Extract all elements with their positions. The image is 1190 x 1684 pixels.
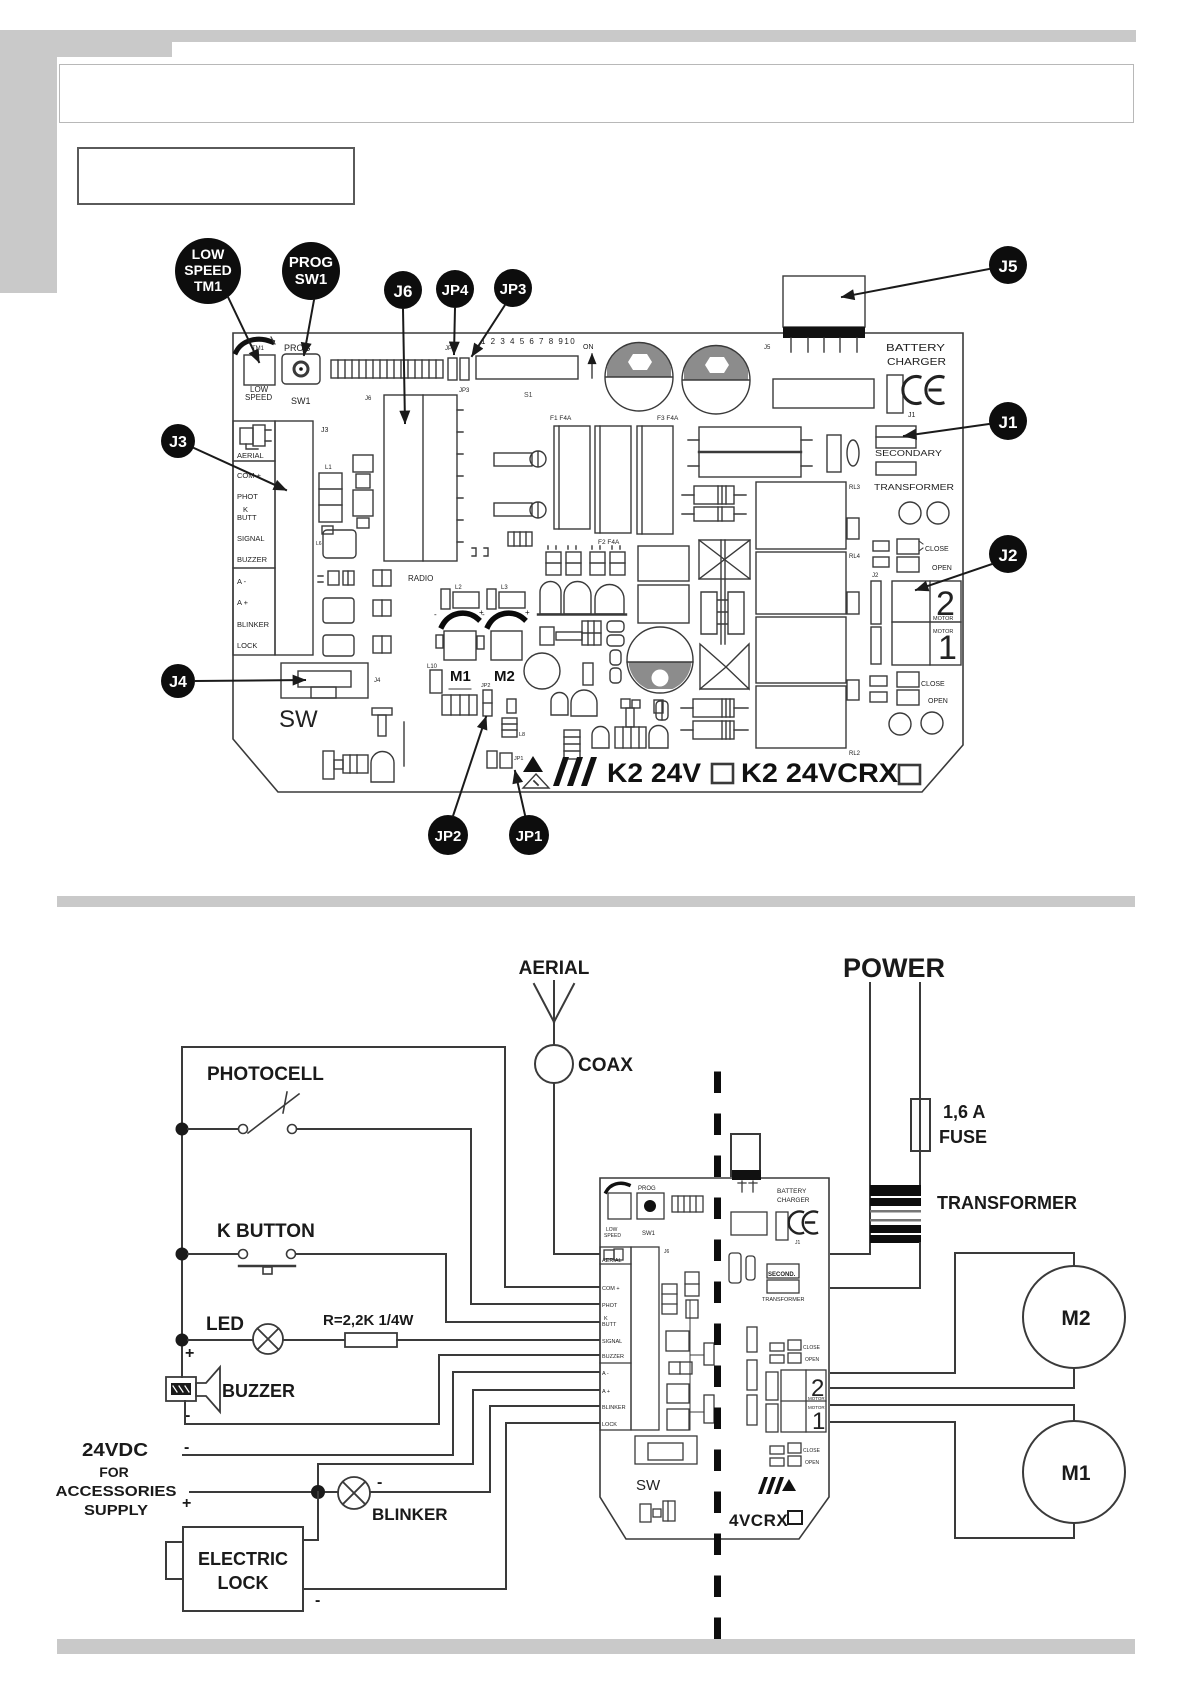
- svg-text:OPEN: OPEN: [928, 698, 948, 705]
- close open B: [870, 672, 948, 705]
- capacitor C2: [682, 345, 750, 414]
- wire transformer out: [831, 1243, 920, 1288]
- logo slashes: [553, 757, 597, 786]
- svg-text:ACCESSORIES: ACCESSORIES: [56, 1484, 177, 1500]
- svg-text:CLOSE: CLOSE: [803, 1345, 821, 1351]
- label minus buzzer: [185, 1407, 190, 1424]
- capacitor C4: [524, 653, 560, 689]
- inductor L1: [316, 465, 342, 547]
- svg-text:BLINKER: BLINKER: [372, 1505, 448, 1524]
- svg-text:J5: J5: [999, 257, 1018, 276]
- capacitor C1: [605, 342, 673, 411]
- svg-text:M1: M1: [1061, 1462, 1090, 1485]
- wire A plus: [190, 1390, 601, 1492]
- fuse F2: [595, 426, 631, 533]
- screw T1: [372, 708, 392, 736]
- mini components mid: [662, 1272, 699, 1430]
- inductor L10: [427, 664, 442, 693]
- mini J6 label: [664, 1249, 670, 1255]
- svg-text:ELECTRIC: ELECTRIC: [198, 1549, 288, 1569]
- pin header comb: [331, 360, 443, 378]
- svg-text:PROG: PROG: [638, 1186, 656, 1192]
- wire power L: [831, 983, 870, 1254]
- label COAX: [578, 1055, 633, 1076]
- svg-text:J3: J3: [321, 427, 329, 434]
- label plus buzzer: [185, 1345, 194, 1362]
- mini relay col: [690, 1300, 757, 1430]
- label 24VDC FOR ACCESSORIES SUPPLY: [56, 1440, 177, 1519]
- mini pin labels: [602, 1258, 626, 1428]
- mini trimmer: [604, 1183, 631, 1239]
- DIP switch: [476, 337, 594, 399]
- balloon J2: [916, 535, 1027, 590]
- pellets row: [538, 582, 626, 615]
- label 1,6 A FUSE: [939, 1102, 987, 1147]
- mini close open A: [770, 1340, 821, 1363]
- dashed line: [714, 1075, 721, 1662]
- balloon PROG SW1: [282, 242, 340, 355]
- relay RL2: [756, 680, 861, 757]
- svg-text:SPEED: SPEED: [184, 262, 231, 278]
- mini J3: [600, 1247, 659, 1430]
- pellet D2: [551, 690, 597, 716]
- screw assembly: [323, 751, 368, 779]
- svg-text:F3 F4A: F3 F4A: [657, 415, 679, 422]
- label LED: [206, 1314, 244, 1335]
- svg-text:+: +: [525, 608, 530, 617]
- board outline: [233, 333, 963, 792]
- svg-text:J1: J1: [999, 413, 1018, 432]
- close open A: [873, 539, 952, 572]
- svg-text:LOCK: LOCK: [602, 1422, 617, 1428]
- label minus 24vdc: [184, 1439, 189, 1456]
- label minus blinker: [377, 1474, 382, 1491]
- svg-text:TM1: TM1: [194, 278, 222, 294]
- FIG1: [161, 238, 1027, 855]
- svg-text:SIGNAL: SIGNAL: [602, 1339, 622, 1345]
- svg-text:SPEED: SPEED: [245, 393, 272, 402]
- radio module J6: [365, 395, 463, 561]
- checkbox 1: [712, 764, 733, 783]
- balloon J1: [904, 402, 1027, 440]
- small part: [507, 699, 516, 713]
- electric lock: [166, 1527, 303, 1611]
- svg-text:L6: L6: [316, 541, 322, 547]
- pellet D1: [371, 752, 394, 783]
- connector row E: [546, 546, 625, 575]
- svg-text:J1: J1: [795, 1240, 801, 1246]
- label SW1: [291, 396, 311, 406]
- svg-text:SW1: SW1: [295, 271, 328, 288]
- svg-text:K2 24V: K2 24V: [607, 758, 701, 788]
- svg-text:J3: J3: [169, 434, 187, 451]
- svg-text:J2: J2: [872, 573, 879, 579]
- label AERIAL: [519, 958, 590, 979]
- trace line: [403, 722, 405, 766]
- fuse F5: [887, 375, 903, 413]
- small cap: [583, 650, 621, 685]
- mosfet M2: [477, 631, 522, 660]
- fuse F1: [550, 415, 590, 529]
- svg-text:J6: J6: [664, 1249, 670, 1255]
- svg-text:-: -: [434, 610, 437, 619]
- connector SW J4: [281, 663, 381, 698]
- wire M1 bottom: [831, 1422, 1074, 1538]
- svg-text:LOCK: LOCK: [237, 641, 257, 650]
- svg-text:BUTT: BUTT: [237, 513, 257, 522]
- svg-text:CHARGER: CHARGER: [777, 1197, 810, 1204]
- svg-text:ON: ON: [583, 344, 594, 351]
- resistor R1: [283, 1333, 601, 1347]
- pellet D3: [592, 726, 668, 749]
- svg-text:CHARGER: CHARGER: [887, 357, 946, 368]
- svg-text:RADIO: RADIO: [408, 574, 433, 583]
- wire M2 top: [831, 1253, 1074, 1373]
- svg-text:BUTT: BUTT: [602, 1322, 617, 1328]
- svg-text:RL2: RL2: [849, 751, 861, 757]
- label LOW SPEED: [245, 346, 272, 402]
- jumper JP4: [445, 346, 470, 394]
- svg-text:BUZZER: BUZZER: [602, 1354, 624, 1360]
- balloon J3: [161, 424, 286, 490]
- balloon LOW SPEED TM1: [175, 238, 259, 362]
- svg-text:SECOND.: SECOND.: [768, 1272, 796, 1278]
- lamp BLINKER: [338, 1477, 370, 1509]
- svg-text:OPEN: OPEN: [932, 565, 952, 572]
- label TRANSFORMER: [937, 1193, 1077, 1213]
- screw Q1: [494, 451, 546, 467]
- small rects mid: [638, 546, 689, 713]
- inductor L8: [502, 718, 525, 738]
- wire lock plus: [303, 1492, 318, 1540]
- relay RLH: [688, 427, 812, 477]
- CE mark: [903, 377, 943, 404]
- mini logo: [758, 1477, 796, 1494]
- connector hatch: [442, 689, 477, 715]
- svg-text:JP1: JP1: [514, 756, 523, 762]
- motor M2: [1023, 1266, 1125, 1368]
- svg-text:PHOT: PHOT: [602, 1303, 618, 1309]
- svg-text:SW1: SW1: [642, 1231, 656, 1237]
- button SW1: [282, 354, 320, 384]
- svg-text:JP4: JP4: [442, 282, 469, 299]
- svg-text:-: -: [482, 610, 485, 619]
- comb component: [508, 532, 532, 546]
- svg-text:J2: J2: [999, 546, 1018, 565]
- cap small: [827, 435, 859, 472]
- buzzer: [166, 1367, 220, 1412]
- node 3: [176, 1334, 189, 1347]
- wire buzzer: [185, 1355, 601, 1424]
- svg-text:24VDC: 24VDC: [82, 1440, 148, 1460]
- wire phot: [297, 1129, 601, 1304]
- svg-text:L1: L1: [325, 465, 332, 471]
- svg-text:J6: J6: [365, 396, 372, 402]
- svg-text:FUSE: FUSE: [939, 1127, 987, 1147]
- svg-text:A -: A -: [237, 577, 247, 586]
- fuse F3: [637, 415, 679, 534]
- label PHOTOCELL: [207, 1064, 324, 1085]
- bowtie transformer: [699, 540, 750, 689]
- svg-text:BLINKER: BLINKER: [602, 1405, 626, 1411]
- svg-text:+: +: [182, 1495, 191, 1512]
- label PROG: [284, 343, 311, 353]
- svg-text:JP2: JP2: [481, 683, 490, 689]
- label ELECTRIC LOCK: [198, 1549, 288, 1593]
- label K2 24V: [607, 758, 898, 788]
- balloon JP2: [428, 717, 486, 855]
- svg-text:AERIAL: AERIAL: [237, 451, 264, 460]
- wire bus left: [181, 1047, 183, 1377]
- wire lock: [303, 1423, 601, 1589]
- svg-text:-: -: [377, 1474, 382, 1491]
- label K BUTTON: [217, 1221, 315, 1242]
- motor M1: [1023, 1421, 1125, 1523]
- mosfet M1: [436, 631, 476, 660]
- ic socket: [323, 530, 356, 558]
- svg-text:TRANSFORMER: TRANSFORMER: [937, 1193, 1077, 1213]
- svg-text:1,6 A: 1,6 A: [943, 1102, 985, 1122]
- svg-text:J1: J1: [908, 412, 916, 419]
- svg-text:CLOSE: CLOSE: [925, 546, 949, 553]
- mini battery charger label: [777, 1188, 810, 1204]
- antenna: [534, 981, 574, 1045]
- svg-text:L8: L8: [519, 732, 525, 738]
- svg-text:JP3: JP3: [500, 281, 527, 298]
- label POWER: [843, 953, 945, 983]
- svg-text:RL4: RL4: [849, 554, 861, 560]
- svg-text:J4: J4: [374, 678, 381, 684]
- mini label VCRX: [729, 1511, 802, 1530]
- svg-text:-: -: [315, 1592, 320, 1609]
- balloon JP3: [472, 269, 532, 356]
- balloon J4: [161, 664, 305, 698]
- label BUZZER: [222, 1381, 295, 1401]
- mini close open B: [770, 1443, 821, 1466]
- balloon JP4: [436, 270, 474, 354]
- hatch squares column: [373, 570, 391, 653]
- wire power R: [919, 983, 921, 1186]
- svg-text:R=2,2K 1/4W: R=2,2K 1/4W: [323, 1312, 414, 1329]
- svg-text:SW: SW: [636, 1477, 661, 1494]
- balloon J6: [384, 271, 422, 423]
- connector J1 secondary: [874, 426, 954, 492]
- inductor L2: [441, 585, 479, 609]
- inductor L3: [487, 585, 525, 609]
- pill pair: [607, 621, 624, 646]
- diode swoosh 2: [482, 608, 530, 626]
- svg-text:PHOTOCELL: PHOTOCELL: [207, 1064, 324, 1085]
- mini board outline: [600, 1178, 829, 1539]
- fuse 1,6A: [911, 1099, 930, 1151]
- pad holes: [899, 502, 949, 524]
- MINIBOARD: [600, 1075, 829, 1662]
- svg-text:LED: LED: [206, 1314, 244, 1335]
- svg-text:COAX: COAX: [578, 1055, 633, 1076]
- svg-text:POWER: POWER: [843, 953, 945, 983]
- svg-text:K BUTTON: K BUTTON: [217, 1221, 315, 1242]
- svg-text:BUZZER: BUZZER: [222, 1381, 295, 1401]
- label plus 24vdc: [182, 1495, 191, 1512]
- svg-text:M2: M2: [494, 668, 515, 685]
- svg-text:SW: SW: [279, 706, 318, 733]
- mini dip: [672, 1196, 703, 1212]
- connector J3 block: [233, 421, 329, 655]
- warning triangle: [523, 756, 549, 788]
- svg-text:LOCK: LOCK: [218, 1573, 269, 1593]
- aerial icon: [240, 425, 271, 449]
- wire A minus: [183, 1372, 601, 1455]
- relay RL1: [756, 592, 859, 683]
- diode swoosh 1: [434, 608, 484, 626]
- bracket: [472, 548, 488, 556]
- svg-text:J5: J5: [764, 345, 771, 351]
- wire coax to aerial pin: [554, 1083, 601, 1254]
- label RADIO: [408, 574, 433, 583]
- svg-text:AERIAL: AERIAL: [519, 958, 590, 979]
- label SW: [279, 706, 318, 733]
- svg-text:CLOSE: CLOSE: [921, 681, 945, 688]
- photocell switch: [188, 1092, 299, 1134]
- pin labels: [237, 451, 270, 650]
- k button switch: [188, 1250, 296, 1275]
- balloon J5: [842, 246, 1027, 297]
- trimmer TM1: [236, 337, 275, 385]
- svg-text:L2: L2: [455, 585, 462, 591]
- svg-text:1: 1: [938, 629, 957, 667]
- wire M2 bottom: [831, 1368, 1074, 1388]
- bolt T2: [615, 699, 646, 748]
- svg-text:OPEN: OPEN: [805, 1460, 820, 1466]
- svg-text:1: 1: [812, 1408, 825, 1435]
- svg-text:L3: L3: [501, 585, 508, 591]
- wire M1 top: [831, 1405, 1074, 1421]
- mini J5: [731, 1134, 761, 1192]
- svg-text:FOR: FOR: [99, 1464, 129, 1480]
- small marks: [318, 571, 354, 585]
- label F2 F4A: [598, 539, 620, 546]
- svg-text:MOTOR: MOTOR: [933, 616, 953, 622]
- node 1: [176, 1123, 189, 1136]
- svg-text:TRANSFORMER: TRANSFORMER: [874, 483, 954, 492]
- svg-text:JP2: JP2: [435, 828, 462, 845]
- coax connector: [535, 1045, 573, 1083]
- node 4: [311, 1485, 325, 1499]
- cap rect long: [773, 379, 874, 408]
- bolt assembly 2: [540, 621, 601, 645]
- balloon JP1: [509, 771, 549, 855]
- svg-text:SPEED: SPEED: [604, 1233, 621, 1239]
- svg-text:JP1: JP1: [516, 828, 543, 845]
- pill single: [656, 701, 668, 720]
- relay RL3: [756, 482, 861, 549]
- svg-text:RL3: RL3: [849, 485, 861, 491]
- checkbox 2: [899, 765, 920, 784]
- svg-text:F2 F4A: F2 F4A: [598, 539, 620, 546]
- svg-text:SW1: SW1: [291, 396, 311, 406]
- jumper JP1: [487, 751, 523, 768]
- svg-text:4VCRX: 4VCRX: [729, 1511, 788, 1530]
- svg-text:M1: M1: [450, 668, 471, 685]
- mini SW: [635, 1436, 697, 1494]
- mini prog button: [637, 1186, 664, 1237]
- svg-text:MOTOR: MOTOR: [808, 1396, 825, 1401]
- label R=2,2K 1/4W: [323, 1312, 414, 1329]
- svg-text:K2 24VCRX: K2 24VCRX: [741, 758, 898, 788]
- mini screws: [640, 1501, 675, 1522]
- svg-text:A -: A -: [602, 1371, 609, 1377]
- svg-text:BLINKER: BLINKER: [237, 620, 270, 629]
- resistor R11: [681, 721, 748, 739]
- label M1: [450, 668, 471, 685]
- hatch block: [564, 730, 580, 759]
- svg-text:OPEN: OPEN: [805, 1357, 820, 1363]
- pad holes 2: [889, 712, 943, 735]
- svg-text:+: +: [185, 1345, 194, 1362]
- screw Q2: [494, 502, 546, 518]
- capacitor C3: [626, 627, 694, 693]
- svg-text:J4: J4: [169, 674, 187, 691]
- lamp LED: [188, 1324, 283, 1354]
- mini caps: [729, 1253, 755, 1283]
- cap vert: [847, 518, 859, 539]
- label M2: [494, 668, 515, 685]
- node 2: [176, 1248, 189, 1261]
- mini motor connector: [766, 1370, 826, 1435]
- resistor pair: [682, 486, 746, 521]
- jumper JP2: [481, 683, 492, 716]
- FIG2: [56, 953, 1126, 1662]
- svg-text:TRANSFORMER: TRANSFORMER: [762, 1297, 805, 1303]
- transformer: [870, 1185, 921, 1243]
- connector J5: [764, 276, 865, 352]
- svg-text:M2: M2: [1061, 1307, 1090, 1330]
- wire blinker up: [490, 1406, 601, 1492]
- svg-text:A +: A +: [602, 1389, 610, 1395]
- svg-text:F1 F4A: F1 F4A: [550, 415, 572, 422]
- svg-text:L10: L10: [427, 664, 438, 670]
- wire top loop: [182, 1047, 601, 1287]
- svg-text:SUPPLY: SUPPLY: [84, 1503, 148, 1519]
- label J1: [908, 412, 916, 419]
- svg-text:COM +: COM +: [602, 1286, 620, 1292]
- svg-text:SECONDARY: SECONDARY: [875, 449, 943, 458]
- svg-text:A +: A +: [237, 598, 249, 607]
- label BLINKER: [372, 1505, 448, 1524]
- label minus lock: [315, 1592, 320, 1609]
- wire k butt: [296, 1254, 601, 1322]
- svg-text:CLOSE: CLOSE: [803, 1448, 821, 1454]
- label BATTERY CHARGER: [886, 343, 946, 368]
- mini misc rects: [731, 1212, 788, 1240]
- svg-text:-: -: [184, 1439, 189, 1456]
- svg-text:J6: J6: [394, 282, 413, 301]
- svg-text:SIGNAL: SIGNAL: [237, 534, 265, 543]
- svg-text:JP3: JP3: [459, 388, 470, 394]
- svg-text:BATTERY: BATTERY: [777, 1188, 807, 1195]
- relay RL4: [756, 552, 861, 614]
- mini CE: [789, 1212, 817, 1247]
- svg-text:S1: S1: [524, 392, 533, 399]
- motor connector J2: [871, 573, 961, 667]
- svg-text:BATTERY: BATTERY: [886, 343, 945, 354]
- svg-text:BUZZER: BUZZER: [237, 555, 268, 564]
- resistor R10: [681, 699, 748, 717]
- svg-text:AERIAL: AERIAL: [602, 1258, 622, 1264]
- svg-text:PHOT: PHOT: [237, 492, 258, 501]
- mini secondary: [762, 1264, 805, 1303]
- svg-text:1 2 3 4 5 6 7 8 910: 1 2 3 4 5 6 7 8 910: [481, 337, 576, 346]
